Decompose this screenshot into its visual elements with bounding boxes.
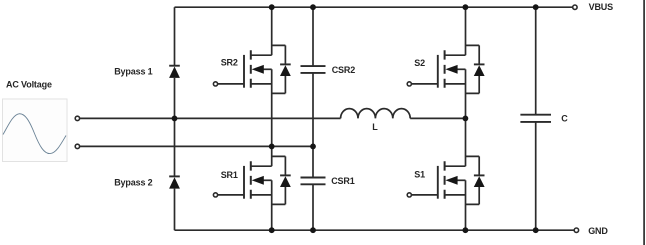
body diode of SR2 [272,45,291,93]
wire left rail lower segment [174,189,176,231]
body diode of S1 [466,156,485,204]
terminal GND [574,228,578,232]
junction switch-node [463,116,469,122]
wire S1 drain lead [465,118,467,166]
svg-text:S2: S2 [414,58,425,68]
wire top rail (VBUS net) [175,6,573,8]
wire bottom rail (GND net) [175,229,575,231]
junction CSR1 gnd [310,227,316,233]
wire AC neutral to SR midpoint [80,145,313,147]
transistor S1 (N-MOSFET) [407,161,465,199]
wire left rail upper segment [174,7,176,65]
svg-text:VBUS: VBUS [589,2,614,12]
wire S2 source lead [465,69,467,118]
AC source image box [3,99,68,162]
svg-text:Bypass 2: Bypass 2 [114,178,152,188]
capacitor CSR1 [301,146,326,230]
svg-text:CSR1: CSR1 [331,176,355,186]
wire AC line to bypass node and inductor [80,117,341,119]
junction S2 drain rail [463,4,469,10]
wire SR2 source lead [271,69,273,146]
wire S2 drain lead [465,7,467,55]
wire SR1 drain lead [271,146,273,166]
svg-text:SR1: SR1 [221,170,238,180]
junction C rail [533,4,539,10]
wire inductor to switch-node [410,117,465,119]
junction SR midpoint [269,144,275,150]
svg-text:C: C [561,114,568,124]
body diode of SR1 [272,156,291,204]
junction C gnd [533,227,539,233]
inductor L [341,109,411,119]
junction CSR2 rail [310,4,316,10]
svg-text:Bypass 1: Bypass 1 [114,67,152,77]
capacitor C (bus) [520,7,551,230]
transistor S2 (N-MOSFET) [407,50,465,88]
diode Bypass 1 [169,66,180,78]
AC source sine waveform [3,114,66,154]
svg-text:L: L [372,122,378,132]
junction SR1 source gnd [269,227,275,233]
svg-text:SR2: SR2 [221,57,238,67]
wire SR2 drain lead [271,7,273,55]
transistor SR1 (N-MOSFET) [213,161,271,199]
body diode of S2 [466,45,485,93]
junction SR2 drain rail [269,4,275,10]
terminal AC line (top) [75,116,79,120]
transistor SR2 (N-MOSFET) [213,50,271,88]
diode Bypass 2 [169,176,180,188]
svg-text:CSR2: CSR2 [332,65,356,75]
terminal VBUS [573,5,577,9]
svg-text:AC Voltage: AC Voltage [6,80,52,90]
wire S1 source lead [465,180,467,230]
svg-text:GND: GND [588,226,608,236]
wire SR1 source lead [271,180,273,230]
junction bypass/AC-line [172,116,178,122]
svg-text:S1: S1 [414,169,425,179]
capacitor CSR2 [301,7,326,146]
junction CSR midpoint [310,144,316,150]
junction S1 source gnd [463,227,469,233]
wire left rail middle segment [174,78,176,176]
terminal AC neutral (bottom) [75,144,79,148]
